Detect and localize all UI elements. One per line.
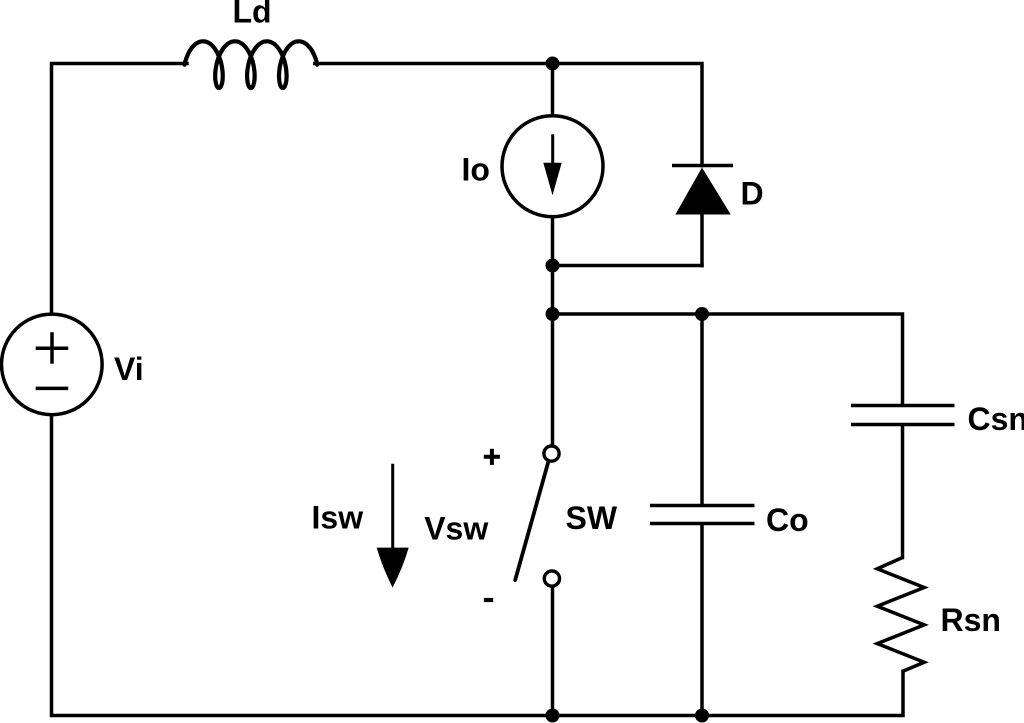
svg-text:SW: SW — [566, 500, 618, 536]
svg-text:D: D — [741, 176, 764, 212]
svg-text:Csn: Csn — [968, 401, 1024, 437]
svg-text:Vi: Vi — [114, 351, 144, 387]
svg-text:Io: Io — [462, 152, 490, 188]
svg-text:Co: Co — [766, 502, 809, 538]
svg-text:Ld: Ld — [233, 0, 272, 30]
svg-text:Isw: Isw — [312, 499, 364, 535]
svg-text:Vsw: Vsw — [424, 511, 488, 547]
svg-text:Rsn: Rsn — [941, 602, 1001, 638]
